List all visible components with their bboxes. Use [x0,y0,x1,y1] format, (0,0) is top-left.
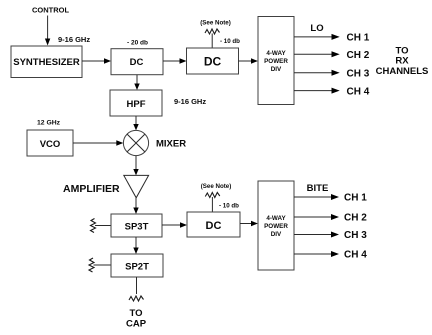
wire LO output CH 2 [294,51,340,57]
resistor to cap [129,296,144,301]
oscillator VCO [27,130,73,156]
svg-text:CH 4: CH 4 [347,87,370,98]
wire SP2T to cap resistor [136,277,138,294]
svg-text:DIV: DIV [271,231,282,238]
svg-text:4-WAY: 4-WAY [266,215,286,222]
svg-text:9-16 GHz: 9-16 GHz [58,35,90,44]
svg-text:CH 2: CH 2 [344,213,367,224]
wire DC 3 to 4-way power divider BITE [240,221,258,226]
resistor termination left of SP2T [89,258,111,272]
svg-text:DC: DC [204,54,222,68]
net label TO RX CHANNELS [376,46,429,78]
switch SP3T [111,214,162,237]
wire SP3T to SP2T [133,237,138,254]
wire SYNTHESIZER to DC attenuator 1 [82,58,111,63]
amplifier A1 (triangle) [124,175,149,197]
wire SP3T to DC 3 [162,222,187,227]
svg-text:DC: DC [130,57,144,68]
svg-text:CHANNELS: CHANNELS [376,66,429,77]
resistor termination left of SP3T [91,219,112,233]
resistor termination above DC 2 [205,29,220,48]
attenuator DC 2 (-10 db) [187,48,239,74]
svg-text:DIV: DIV [271,66,282,73]
svg-text:RX: RX [395,56,409,67]
svg-text:(See Note): (See Note) [201,183,232,190]
svg-text:- 10 db: - 10 db [220,38,240,45]
svg-text:4-WAY: 4-WAY [266,50,286,57]
wire DC 1 to DC 2 [163,58,187,63]
wire amplifier to SP3T [133,198,138,214]
mixer X1 [123,130,148,155]
net label TO CAP [126,308,147,330]
wire BITE output CH 1 [294,194,339,200]
svg-text:POWER: POWER [264,223,288,230]
switch SP2T [111,254,163,277]
svg-text:MIXER: MIXER [156,139,186,150]
filter HPF [110,90,162,116]
svg-text:SP2T: SP2T [125,261,149,272]
svg-text:12 GHz: 12 GHz [37,120,61,127]
wire BITE output CH 4 [294,251,339,257]
wire BITE output CH 2 [294,214,339,220]
svg-text:CH 1: CH 1 [344,193,367,204]
wire LO output CH 4 [294,88,340,94]
wire mixer to amplifier [133,156,138,176]
block 4-WAY POWER DIV (BITE) [258,181,294,270]
svg-text:LO: LO [310,23,323,34]
attenuator DC 1 (-20 db) [111,49,163,75]
svg-text:(See Note): (See Note) [200,20,231,27]
wire VCO to mixer [73,140,123,145]
svg-text:CH 3: CH 3 [347,69,370,80]
block 4-WAY POWER DIV (LO) [258,17,294,105]
svg-text:CH 2: CH 2 [347,50,370,61]
svg-text:AMPLIFIER: AMPLIFIER [63,183,120,195]
svg-text:CH 4: CH 4 [344,250,367,261]
wire LO output CH 1 [294,34,340,40]
svg-text:SP3T: SP3T [125,221,149,232]
svg-text:DC: DC [206,220,222,232]
svg-text:- 10 db: - 10 db [219,203,239,210]
wire DC 2 to 4-way power divider LO [239,58,259,63]
svg-text:VCO: VCO [40,139,61,150]
attenuator DC 3 (-10 db) [187,212,240,237]
svg-text:HPF: HPF [127,99,146,110]
svg-text:POWER: POWER [264,58,288,65]
resistor termination above DC 3 [205,193,220,213]
svg-text:SYNTHESIZER: SYNTHESIZER [13,57,80,68]
block SYNTHESIZER [11,46,82,78]
svg-text:CH 1: CH 1 [347,33,370,44]
svg-text:9-16 GHz: 9-16 GHz [174,97,206,106]
svg-text:TO: TO [129,308,142,319]
wire LO output CH 3 [294,70,340,76]
wire BITE output CH 3 [294,232,339,238]
svg-text:CH 3: CH 3 [344,230,367,241]
svg-text:CONTROL: CONTROL [32,6,69,15]
svg-text:BITE: BITE [307,183,329,194]
wire DC 1 to HPF [134,75,139,90]
wire CONTROL to SYNTHESIZER [45,16,50,46]
svg-text:CAP: CAP [126,319,147,330]
wire HPF to mixer [133,116,138,130]
svg-text:- 20 db: - 20 db [127,40,148,47]
